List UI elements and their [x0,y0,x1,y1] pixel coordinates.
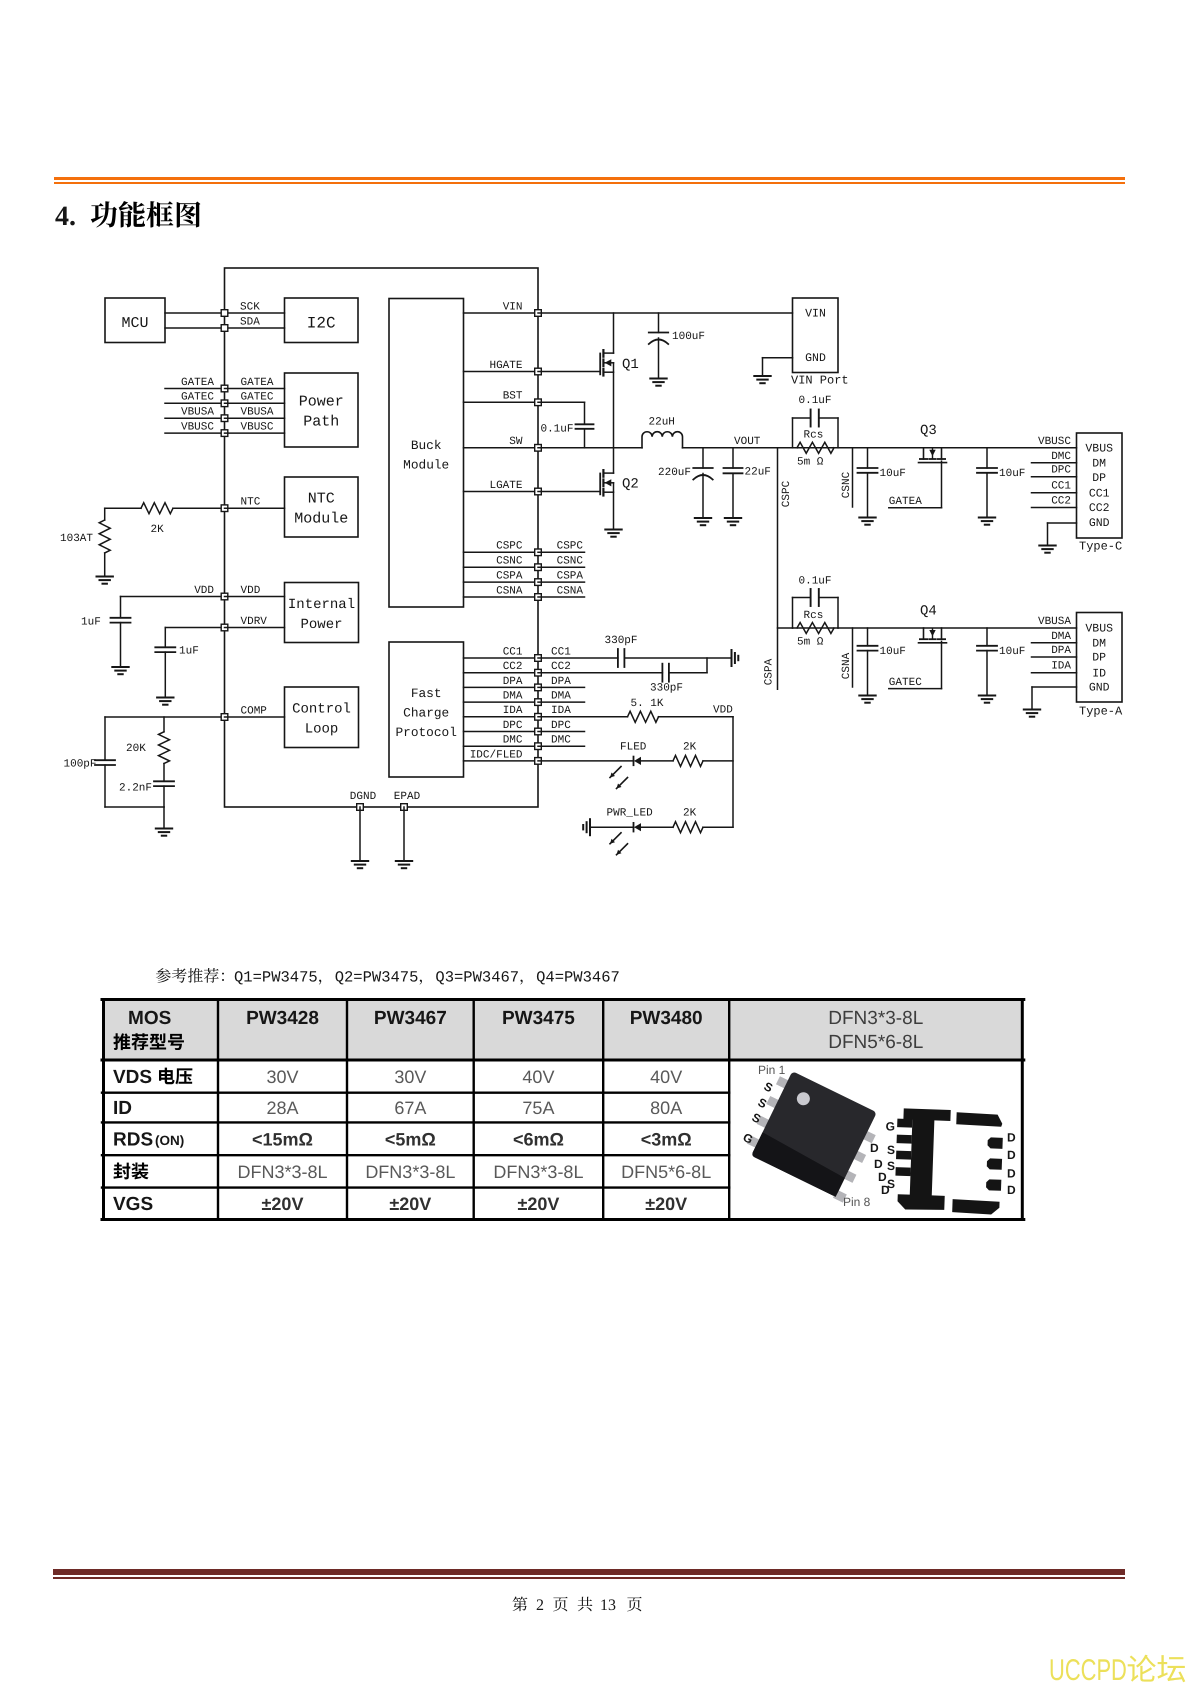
svg-text:CSPA: CSPA [764,658,776,685]
net CSPA stub [538,581,585,583]
pin VDD [221,593,228,600]
wire Q4 gate GATEC [941,641,943,688]
svg-text:VGS: VGS [113,1194,153,1215]
svg-text:220uF: 220uF [658,467,691,479]
capacitor 0.1uF bootstrap [538,401,585,403]
net GATEC left stub [165,402,225,404]
svg-text:DFN3*3-8L: DFN3*3-8L [237,1162,327,1182]
svg-text:PW3428: PW3428 [246,1008,319,1029]
svg-text:LGATE: LGATE [489,480,522,492]
wire IDA to Type-A [1032,672,1077,674]
svg-text:S: S [887,1177,895,1191]
ground 10uF A2 [979,695,995,697]
wire VOUT [683,447,793,449]
svg-text:13: 13 [600,1597,616,1614]
wire LGATE buck pin [464,491,539,493]
svg-text:DMA: DMA [1051,631,1071,643]
svg-text:330pF: 330pF [650,683,683,695]
svg-text:2K: 2K [151,524,165,536]
table CJK labels [113,1033,184,1050]
svg-text:Loop: Loop [305,722,339,738]
svg-text:VBUSA: VBUSA [181,407,214,419]
wire VIN rail [538,312,793,314]
svg-text:D: D [874,1157,883,1171]
svg-text:CC2: CC2 [1089,502,1110,515]
capacitor 2.2nF COMP [154,780,174,782]
block MCU [105,298,165,343]
diode FLED [538,760,634,762]
svg-text:<15mΩ: <15mΩ [252,1129,313,1149]
svg-text:VDRV: VDRV [241,616,268,628]
svg-text:PW3475: PW3475 [502,1008,575,1029]
svg-text:0.1uF: 0.1uF [799,395,832,407]
svg-text:VBUS: VBUS [1085,623,1113,636]
svg-text:CSPC: CSPC [496,541,523,553]
capacitor 330pF CC1 [538,657,618,659]
svg-text:(ON): (ON) [155,1133,184,1148]
svg-text:VBUSC: VBUSC [241,422,274,434]
svg-text:NTC: NTC [241,497,261,509]
wire Type-C GND [1048,522,1077,524]
ground CC1 cap [731,650,733,666]
ground EPAD [396,860,412,862]
pin LGATE [535,488,542,495]
capacitor 1uF VDD [120,597,122,618]
svg-text:IDA: IDA [503,705,523,717]
svg-text:S: S [887,1143,895,1157]
svg-text:<6mΩ: <6mΩ [513,1129,564,1149]
pin BST [535,399,542,406]
ground DGND [352,860,368,862]
ground COMP network [163,807,165,829]
svg-text:D: D [1007,1148,1016,1162]
wire Q1 source to SW [613,363,615,448]
svg-text:Pin 8: Pin 8 [843,1195,871,1209]
svg-text:SCK: SCK [240,301,260,313]
resistor 2K NTC divider [105,507,141,509]
svg-text:CSPC: CSPC [781,480,793,507]
net CSNA tap [852,628,854,687]
pin CSNC [535,564,542,571]
net CSNA stub [538,596,585,598]
wire DPC to Type-C [1032,476,1077,478]
svg-text:Q1: Q1 [622,357,639,373]
svg-text:CSPA: CSPA [557,571,584,583]
svg-text:2: 2 [536,1597,544,1614]
wire CSPA buck pin [464,581,539,583]
wire DMC fcp pin [464,745,539,747]
capacitor 330pF CC2 [538,672,662,674]
capacitor 0.1uF Rcs C-port [793,447,839,449]
svg-text:5m Ω: 5m Ω [797,457,824,469]
svg-text:DPC: DPC [551,720,571,732]
svg-text:GATEC: GATEC [181,392,214,404]
svg-text:VIN Port: VIN Port [791,374,849,388]
block VIN Port [793,298,839,373]
svg-text:GATEC: GATEC [241,392,274,404]
wire VDD [121,596,225,598]
pin SDA [221,325,228,332]
capacitor 10uF A-port 1 [867,628,869,646]
svg-text:Q3=PW3467: Q3=PW3467 [435,969,519,987]
pin VBUSA [221,415,228,422]
svg-text:VOUT: VOUT [734,436,761,448]
resistor 5.1K IDA [538,716,628,718]
net DMA stub [538,701,585,703]
wire DMA fcp pin [464,701,539,703]
block NTC Module [285,477,359,537]
ground PWR_LED [589,819,591,835]
pin DMC [535,743,542,750]
svg-text:100uF: 100uF [672,331,705,343]
net DMC stub [538,745,585,747]
wire Q1 drain to VIN [613,313,615,353]
ground VIN Port [754,375,770,377]
wire HGATE buck pin [464,371,539,373]
svg-text:CSNC: CSNC [841,471,853,498]
wire VIN Port GND [763,357,793,359]
svg-text:MOS: MOS [128,1008,171,1029]
wire VIN buck pin [464,312,539,314]
svg-text:IDA: IDA [1051,661,1071,673]
footer page number [513,1597,642,1614]
svg-text:VDS: VDS [113,1067,152,1088]
svg-text:Rcs: Rcs [804,610,824,622]
svg-text:67A: 67A [394,1098,426,1118]
wire CSPC buck pin [464,551,539,553]
package images [741,1063,1016,1215]
svg-text:FLED: FLED [620,742,647,754]
svg-text:80A: 80A [650,1098,682,1118]
svg-text:DGND: DGND [350,791,377,803]
svg-text:Module: Module [403,458,449,473]
svg-text:BST: BST [503,391,523,403]
svg-text:±20V: ±20V [517,1194,559,1214]
svg-text:D: D [1007,1183,1016,1197]
svg-text:GATEA: GATEA [241,377,274,389]
block Internal Power [285,583,359,643]
svg-text:CC1: CC1 [551,646,571,658]
svg-text:DFN3*3-8L: DFN3*3-8L [828,1008,923,1029]
pin COMP [221,714,228,721]
svg-text:EPAD: EPAD [394,791,421,803]
svg-text:IDA: IDA [551,705,571,717]
wire Q2 source to ground [613,483,615,530]
svg-text:DMA: DMA [503,691,523,703]
wire Q2 drain to SW [613,448,615,473]
svg-text:Internal: Internal [288,597,355,613]
wire SW [538,447,642,449]
wire SDA [165,327,225,329]
svg-text:<3mΩ: <3mΩ [641,1129,692,1149]
svg-text:Protocol: Protocol [395,725,456,740]
wire DPC fcp pin [464,731,539,733]
top orange double rule [54,177,1125,179]
pin SW [535,445,542,452]
svg-text:±20V: ±20V [262,1194,304,1214]
svg-text:28A: 28A [266,1098,298,1118]
transistor Q2 [538,491,600,493]
svg-text:GND: GND [1089,682,1110,695]
pin CSNA [535,594,542,601]
caption 参考推荐 [156,968,620,986]
net VBUSC left stub [165,432,225,434]
svg-text:VDD: VDD [194,585,214,597]
ground Type-C [1039,545,1055,547]
watermark [1049,1654,1185,1683]
net DPA stub [538,686,585,688]
transistor Q1 [538,371,600,373]
wire COMP [105,716,225,718]
svg-text:40V: 40V [650,1067,682,1087]
resistor 2K FLED [673,755,703,766]
pin SCK [221,310,228,317]
ground 22uF [725,517,741,519]
svg-text:Type-A: Type-A [1079,705,1123,719]
svg-text:CSNC: CSNC [557,556,584,568]
svg-text:Q4: Q4 [920,604,937,620]
pin DPC [535,728,542,735]
ground 10uF C2 [979,517,995,519]
svg-text:100pF: 100pF [64,759,97,771]
wire CSNA buck pin [464,596,539,598]
svg-text:Q2: Q2 [622,477,639,493]
svg-text:30V: 30V [394,1067,426,1087]
pin IDA [535,714,542,721]
wire CC1 to Type-C [1032,492,1077,494]
svg-text:UCCPD: UCCPD [1049,1654,1127,1683]
capacitor 10uF C-port 1 [867,448,869,468]
svg-text:HGATE: HGATE [489,360,522,372]
svg-text:DFN3*3-8L: DFN3*3-8L [493,1162,583,1182]
svg-text:CC1: CC1 [503,646,523,658]
svg-text:4.: 4. [55,201,76,232]
svg-text:VBUSA: VBUSA [241,407,274,419]
svg-text:<5mΩ: <5mΩ [385,1129,436,1149]
svg-text:PWR_LED: PWR_LED [607,808,654,820]
svg-text:GATEA: GATEA [181,377,214,389]
table MOS recommendation [102,1000,1024,1220]
wire Type-A GND [1032,686,1077,688]
connector Type-C [1077,433,1123,538]
transistor Q3 [923,448,925,459]
pin DMA [535,699,542,706]
pin GATEC [221,400,228,407]
pin VBUSC [221,430,228,437]
resistor 2K PWR_LED [673,822,703,833]
wire IDA fcp pin [464,716,539,718]
net GATEA left stub [165,388,225,390]
svg-text:Rcs: Rcs [804,430,824,442]
pin IDC/FLED [535,758,542,765]
capacitor 100pF COMP [104,717,106,760]
svg-text:5. 1K: 5. 1K [631,698,664,710]
svg-text:Buck: Buck [411,438,442,453]
svg-text:I2C: I2C [307,315,336,333]
block Control Loop [285,687,359,748]
svg-text:CSPA: CSPA [496,571,523,583]
inductor 22uH [642,432,683,448]
svg-text:GATEA: GATEA [889,496,922,508]
capacitor 10uF C-port 2 [986,448,988,468]
ground Type-A [1024,709,1040,711]
wire CC2 to CC1 [706,658,708,673]
capacitor 220uF output [702,448,704,468]
svg-text:SW: SW [509,436,523,448]
svg-text:DPA: DPA [551,676,571,688]
svg-text:D: D [870,1141,879,1155]
svg-text:±20V: ±20V [389,1194,431,1214]
wire VOUT to A rail [778,627,793,629]
pin CC1 [535,655,542,662]
svg-text:ID: ID [1092,668,1106,681]
net CSNC stub [538,566,585,568]
net CSNC tap [852,448,854,507]
svg-text:COMP: COMP [241,705,268,717]
svg-text:GND: GND [805,352,826,365]
block I2C [285,298,359,343]
svg-text:Q4=PW3467: Q4=PW3467 [536,969,620,987]
wire DPA fcp pin [464,686,539,688]
svg-text:DPC: DPC [1051,465,1071,477]
svg-text:G: G [886,1120,895,1134]
svg-text:CSNA: CSNA [496,585,523,597]
ground 100uF [650,378,666,380]
svg-text:VBUSA: VBUSA [1038,616,1071,628]
svg-text:VBUS: VBUS [1085,443,1113,456]
svg-text:CC1: CC1 [1051,481,1071,493]
svg-text:DMC: DMC [551,735,571,747]
svg-text:Q2=PW3475: Q2=PW3475 [335,969,419,987]
section title 4. [55,201,76,232]
diode PWR_LED [590,826,634,828]
svg-text:D: D [878,1170,887,1184]
svg-text:CSNA: CSNA [841,652,853,679]
svg-text:VDD: VDD [241,585,261,597]
svg-text:Charge: Charge [403,706,449,721]
svg-text:Fast: Fast [411,686,442,701]
svg-text:VIN: VIN [503,301,523,313]
svg-text:0.1uF: 0.1uF [540,424,573,436]
svg-text:Q1=PW3475: Q1=PW3475 [234,969,318,987]
capacitor 22uF output [732,448,734,468]
svg-text:CSNC: CSNC [496,556,523,568]
capacitor 10uF A-port 2 [986,628,988,646]
net CSPC stub [538,551,585,553]
block Buck Module [389,299,464,608]
transistor Q4 [923,628,925,639]
svg-text:SDA: SDA [240,316,260,328]
section title CJK 功能框图 [91,201,201,227]
svg-text:DFN3*3-8L: DFN3*3-8L [365,1162,455,1182]
svg-text:MCU: MCU [121,315,148,332]
svg-text:2.2nF: 2.2nF [119,783,152,795]
wire IDC/FLED fcp pin [464,760,539,762]
wire Q3 gate GATEA [941,461,943,508]
svg-text:CC1: CC1 [1089,488,1110,501]
wire VDRV [165,627,224,629]
wire BST buck pin [464,401,539,403]
svg-text:D: D [1007,1166,1016,1180]
svg-text:22uH: 22uH [649,417,675,429]
svg-text:75A: 75A [522,1098,554,1118]
pin CSPC [535,549,542,556]
svg-text:DFN5*6-8L: DFN5*6-8L [828,1032,923,1053]
svg-text:2K: 2K [683,742,697,754]
resistor 20K COMP [163,717,165,732]
pin VDRV [221,624,228,631]
svg-text:GATEC: GATEC [889,677,922,689]
svg-text:DM: DM [1092,458,1106,471]
pin VIN [535,310,542,317]
svg-text:DFN5*6-8L: DFN5*6-8L [621,1162,711,1182]
svg-text:40V: 40V [522,1067,554,1087]
svg-text:10uF: 10uF [880,646,906,658]
svg-text:2K: 2K [683,808,697,820]
svg-text:PW3480: PW3480 [630,1008,703,1029]
connector Type-A [1077,613,1123,703]
wire CC1 fcp pin [464,657,539,659]
svg-text:DMC: DMC [1051,451,1071,463]
LED arrows FLED [610,767,621,778]
svg-text:PW3467: PW3467 [374,1008,447,1029]
svg-text:Power: Power [300,617,342,633]
wire DPA to Type-A [1032,656,1077,658]
svg-text:10uF: 10uF [999,646,1025,658]
ground 10uF A1 [859,695,875,697]
svg-text:CC2: CC2 [503,661,523,673]
wire VBUSC rail [838,447,1077,449]
capacitor 0.1uF Rcs A-port [793,627,839,629]
svg-text:NTC: NTC [308,491,335,508]
svg-text:DPA: DPA [1051,645,1071,657]
svg-text:DP: DP [1092,472,1106,485]
svg-text:Control: Control [292,702,351,718]
wire SW buck pin [464,447,539,449]
svg-text:103AT: 103AT [60,533,93,545]
pin GATEA [221,385,228,392]
svg-text:VDD: VDD [713,705,733,717]
svg-text:DPA: DPA [503,676,523,688]
ground Q2 [605,529,621,531]
svg-text:S: S [887,1159,895,1173]
ground 10uF C1 [859,517,875,519]
LED arrows PWR_LED [610,833,621,844]
block Power Path [285,373,359,447]
net CSPC tap [777,448,779,690]
svg-text:VBUSC: VBUSC [181,422,214,434]
svg-text:VIN: VIN [805,308,826,321]
svg-text:±20V: ±20V [645,1194,687,1214]
capacitor 1uF VDRV [164,628,166,648]
wire DMC to Type-C [1032,462,1077,464]
wire COMP network bottom [105,806,164,808]
svg-text:DPC: DPC [503,720,523,732]
net VBUSA left stub [165,417,225,419]
svg-text:Pin 1: Pin 1 [758,1063,786,1077]
IC U1 main controller outline [225,268,539,807]
svg-text:DMA: DMA [551,691,571,703]
wire SCK [165,312,225,314]
svg-text:10uF: 10uF [880,468,906,480]
svg-text:Type-C: Type-C [1079,540,1122,554]
svg-text:1uF: 1uF [179,646,199,658]
svg-text:Module: Module [294,511,348,528]
ground thermistor [97,576,113,578]
svg-text:DM: DM [1092,638,1106,651]
ground VDRV cap [157,697,173,699]
svg-text:5m Ω: 5m Ω [797,637,824,649]
